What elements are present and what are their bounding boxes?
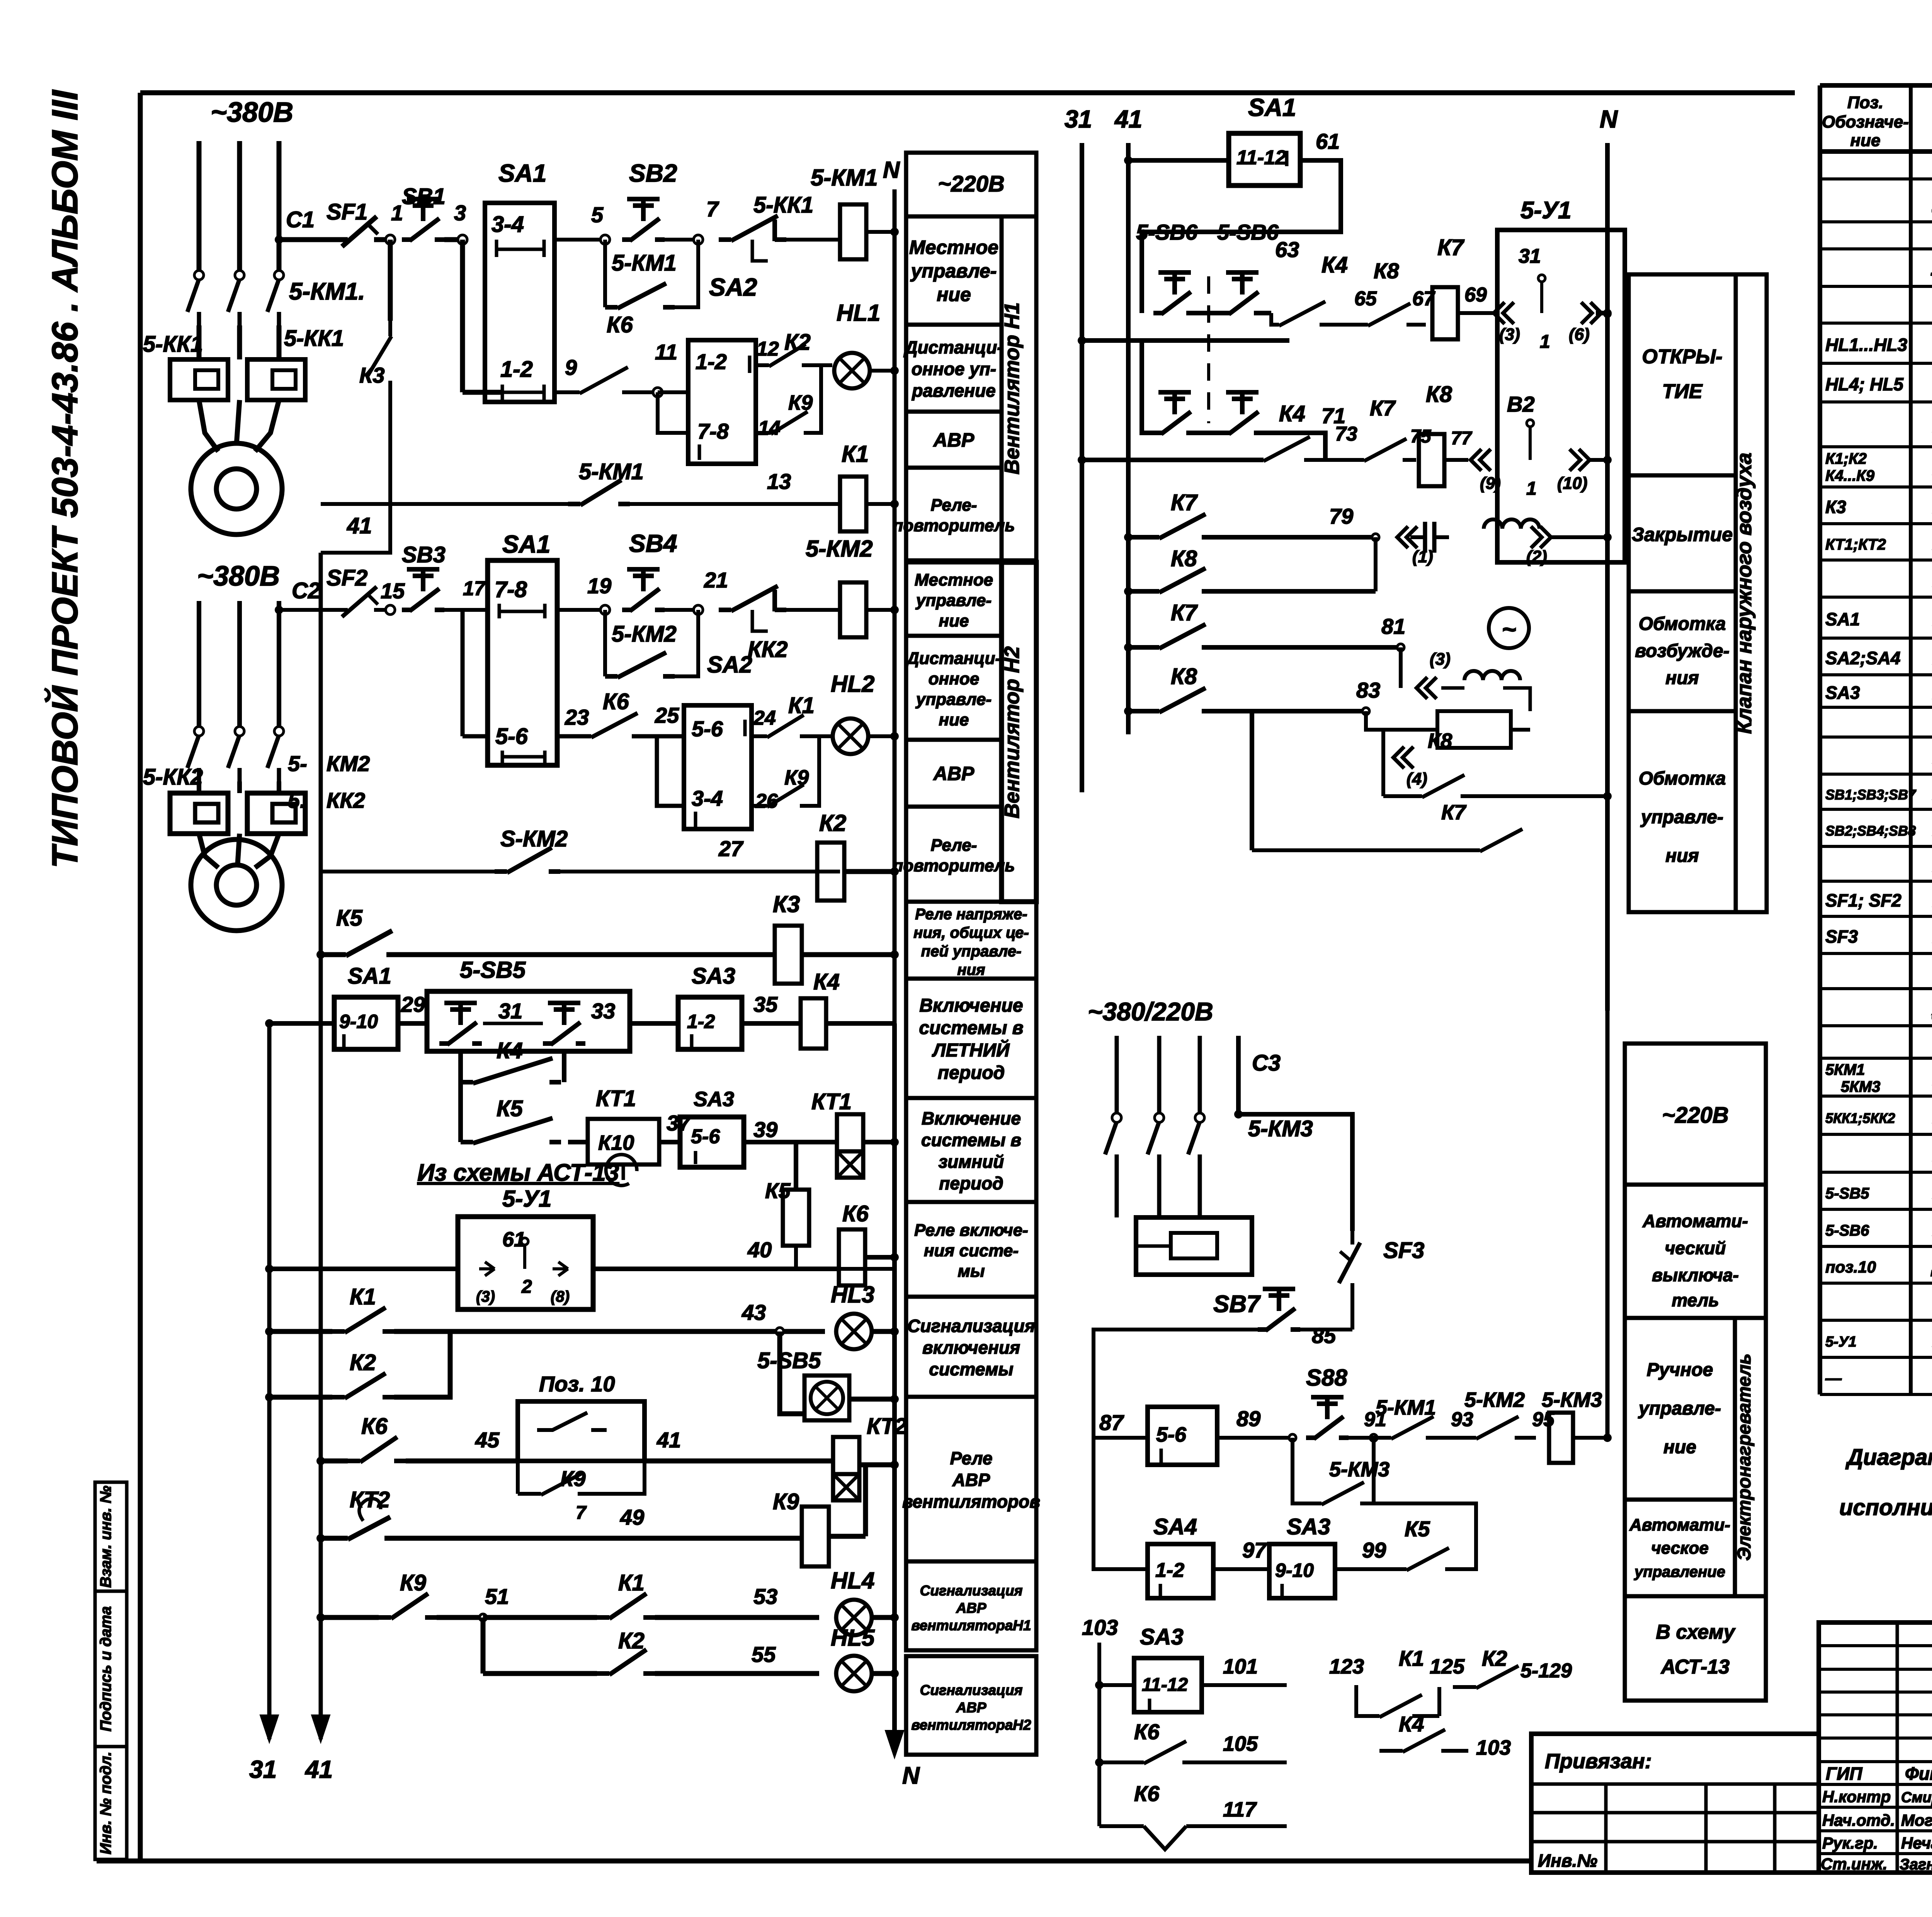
row К2 contact	[265, 1393, 274, 1401]
svg-text:Н.контр: Н.контр	[1822, 1788, 1891, 1806]
svg-text:управле-: управле-	[1640, 807, 1723, 827]
svg-text:КТ1;КТ2: КТ1;КТ2	[1825, 536, 1886, 553]
svg-text:HL2: HL2	[831, 671, 874, 697]
wire У1 open to N	[1603, 310, 1612, 318]
svg-text:~220В: ~220В	[1662, 1103, 1729, 1128]
svg-text:117: 117	[1223, 1798, 1257, 1821]
left margin stamp box Взам. инв. №	[95, 1482, 127, 1591]
svg-text:SF3: SF3	[1825, 926, 1858, 947]
relay box in control branch	[1437, 711, 1511, 748]
svg-text:5-129: 5-129	[1520, 1660, 1572, 1682]
function box Местное управление fan2	[906, 562, 1002, 636]
svg-text:К8: К8	[1428, 729, 1452, 752]
svg-text:35: 35	[753, 992, 778, 1016]
svg-text:К10: К10	[598, 1131, 634, 1154]
row 45 contact К6	[316, 1457, 325, 1465]
heater function box Ручное управление	[1625, 1318, 1735, 1500]
svg-text:К1;К2: К1;К2	[1825, 450, 1867, 467]
svg-text:К6: К6	[361, 1414, 388, 1439]
svg-text:онное уп-: онное уп-	[912, 359, 996, 379]
svg-text:SA2: SA2	[707, 652, 752, 678]
svg-text:Реле напряже-: Реле напряже-	[915, 906, 1027, 923]
svg-text:SF2: SF2	[327, 565, 367, 591]
motor M1	[191, 443, 282, 535]
привязан block	[1531, 1734, 1819, 1873]
svg-text:1-2: 1-2	[500, 357, 533, 382]
svg-text:К7: К7	[1171, 600, 1198, 625]
N bus vertical section1	[893, 189, 897, 560]
svg-text:Диаграммы замыканий контакто: Диаграммы замыканий контактов универсаль…	[1845, 1445, 1932, 1470]
wire C2 row feeder 2 control	[279, 608, 333, 612]
svg-text:9: 9	[565, 355, 577, 380]
row летний период: cam SA1 9-10	[265, 1019, 274, 1028]
rotated label Вентилятор Н2	[1002, 562, 1036, 902]
svg-text:Инв. № подл.: Инв. № подл.	[97, 1752, 114, 1854]
svg-text:99: 99	[1362, 1538, 1386, 1562]
svg-text:К8: К8	[1374, 259, 1399, 283]
svg-text:77: 77	[1451, 428, 1473, 449]
svg-text:К1: К1	[350, 1284, 376, 1309]
svg-text:ние: ние	[937, 284, 971, 305]
cam switch SA3 1-2	[630, 1021, 678, 1026]
svg-text:3: 3	[454, 201, 466, 225]
bus 41 vertical	[319, 553, 323, 1739]
svg-text:~380В: ~380В	[197, 561, 280, 592]
svg-text:HL5: HL5	[831, 1625, 875, 1651]
svg-text:К4: К4	[1321, 252, 1348, 278]
svg-text:7: 7	[706, 197, 719, 221]
svg-text:5-: 5-	[288, 751, 307, 776]
svg-text:Поз.: Поз.	[1847, 93, 1883, 112]
svg-text:мы: мы	[957, 1262, 985, 1281]
svg-text:5-SB5: 5-SB5	[460, 957, 526, 983]
heater phase lines	[1115, 1036, 1119, 1117]
function box Местное управление fan1	[906, 216, 1002, 325]
svg-text:Привязан:: Привязан:	[1545, 1750, 1652, 1773]
function box Реле-повторитель fan2	[906, 807, 1002, 902]
svg-text:Электронагреватель: Электронагреватель	[1734, 1353, 1755, 1561]
row 97 automatic mode	[1094, 1438, 1148, 1569]
row 55 contact К2	[481, 1617, 486, 1674]
svg-text:87: 87	[1099, 1410, 1124, 1435]
row К8 83	[1124, 707, 1133, 715]
svg-text:5-SB6: 5-SB6	[1136, 220, 1198, 244]
svg-text:исполнительного механизма, п: исполнительного механизма, прибора поз. …	[1839, 1495, 1932, 1520]
svg-text:Вентилятор Н1: Вентилятор Н1	[1000, 302, 1024, 474]
motor M2	[191, 839, 282, 931]
svg-text:К9: К9	[784, 766, 809, 789]
svg-text:55: 55	[752, 1642, 776, 1667]
svg-text:5-КМ1: 5-КМ1	[612, 250, 677, 276]
svg-text:К4...К9: К4...К9	[1825, 467, 1875, 484]
svg-text:Реле включе-: Реле включе-	[914, 1221, 1028, 1240]
svg-text:103: 103	[1476, 1736, 1511, 1759]
svg-text:К7: К7	[1441, 801, 1467, 824]
svg-text:41: 41	[656, 1428, 681, 1452]
svg-text:период: период	[938, 1063, 1005, 1083]
function box Реле напряжения	[906, 902, 1036, 979]
function box Дистанционное управление fan2	[906, 636, 1002, 740]
svg-text:КК2: КК2	[748, 637, 788, 662]
svg-text:Вентилятор Н2: Вентилятор Н2	[1000, 646, 1024, 818]
wire node11 into SA2	[658, 390, 688, 394]
heater element box	[1136, 1217, 1252, 1275]
svg-text:К7: К7	[1437, 235, 1465, 260]
svg-text:~: ~	[1502, 615, 1516, 643]
wire to node 3	[444, 237, 463, 242]
svg-text:1: 1	[1526, 478, 1537, 499]
svg-text:ния систе-: ния систе-	[924, 1241, 1019, 1260]
svg-text:повторитель: повторитель	[893, 856, 1015, 875]
svg-text:К6: К6	[1134, 1720, 1160, 1744]
thermal relay 5-КК2 element B	[247, 793, 305, 834]
svg-text:N: N	[902, 1762, 920, 1789]
svg-text:5-КК2: 5-КК2	[143, 764, 203, 790]
wire phase lines feeder 1	[197, 141, 202, 274]
svg-text:5-КМ2: 5-КМ2	[1464, 1388, 1525, 1411]
wire left bus heater	[1094, 1330, 1258, 1438]
svg-text:Включение: Включение	[922, 1108, 1021, 1129]
svg-text:SA2;SA4: SA2;SA4	[1825, 648, 1900, 668]
control winding branch	[1399, 647, 1403, 688]
svg-text:К5: К5	[1405, 1517, 1430, 1541]
svg-text:тель: тель	[1672, 1290, 1719, 1310]
svg-text:Дистанци-: Дистанци-	[903, 337, 1003, 358]
svg-text:N: N	[1600, 105, 1618, 133]
svg-text:КТ1: КТ1	[596, 1086, 636, 1111]
wire thermal relays to motor M1	[199, 400, 218, 451]
wire down to 41 junction	[321, 410, 390, 553]
svg-text:К2: К2	[1482, 1646, 1507, 1670]
svg-text:ние: ние	[1663, 1437, 1696, 1457]
svg-text:HL1: HL1	[837, 300, 880, 326]
svg-text:5-У1: 5-У1	[502, 1186, 551, 1212]
svg-text:12: 12	[757, 338, 779, 360]
svg-text:период: период	[939, 1173, 1003, 1193]
function box Включение зимний период	[906, 1098, 1036, 1202]
svg-text:С3: С3	[1252, 1050, 1281, 1076]
svg-text:31: 31	[498, 999, 522, 1023]
svg-text:Сигнализация: Сигнализация	[907, 1316, 1035, 1336]
svg-text:40: 40	[747, 1238, 772, 1262]
svg-text:27: 27	[718, 836, 744, 861]
wire N line heater	[1236, 1036, 1241, 1114]
wire node17 to SA1 5-6 row	[461, 610, 465, 736]
AC source symbol	[1489, 608, 1529, 648]
excitation winding branch	[1410, 535, 1425, 539]
wire to node 17	[444, 608, 488, 612]
svg-text:К6: К6	[603, 689, 629, 714]
svg-text:1: 1	[391, 201, 403, 225]
svg-text:ния, общих це-: ния, общих це-	[913, 924, 1029, 941]
svg-text:29: 29	[401, 992, 425, 1016]
wire coil2 to N bus	[866, 608, 895, 612]
self-hold branch 5-КМ2	[603, 610, 607, 676]
svg-text:АСТ-13: АСТ-13	[1660, 1656, 1730, 1678]
svg-text:К1: К1	[618, 1570, 645, 1595]
wire row 40	[269, 1267, 458, 1271]
svg-text:31: 31	[1519, 245, 1541, 267]
sheet frame left border	[138, 93, 143, 1861]
svg-text:5-6: 5-6	[691, 1125, 720, 1148]
svg-text:5-КМ2: 5-КМ2	[612, 621, 677, 647]
svg-text:5КК1;5КК2: 5КК1;5КК2	[1825, 1110, 1895, 1126]
svg-text:1-2: 1-2	[696, 349, 727, 374]
svg-text:89: 89	[1236, 1406, 1260, 1431]
svg-text:93: 93	[1451, 1408, 1473, 1431]
row 49 timed contact КТ2	[316, 1534, 325, 1542]
N bus vertical section2	[893, 560, 897, 1023]
row К7 bottom	[1250, 711, 1254, 850]
svg-text:ЛЕТНИЙ: ЛЕТНИЙ	[932, 1040, 1010, 1061]
svg-text:73: 73	[1335, 423, 1357, 445]
rotated label Клапан наружного воздуха	[1736, 274, 1767, 912]
svg-text:SA3: SA3	[694, 1088, 734, 1111]
svg-text:ческий: ческий	[1665, 1238, 1726, 1258]
sheet frame bottom border	[97, 1859, 1532, 1864]
svg-text:Реле-: Реле-	[931, 496, 977, 515]
function box АВР fan2	[906, 740, 1002, 807]
wire SA1 to node 5	[554, 238, 605, 242]
svg-text:Местное: Местное	[909, 237, 998, 258]
heater function box В схему АСТ-13	[1625, 1596, 1766, 1701]
svg-text:5-КМ3: 5-КМ3	[1248, 1116, 1313, 1141]
svg-text:(3): (3)	[1430, 650, 1451, 669]
svg-text:43: 43	[742, 1300, 766, 1325]
thermal relay 5-КК1 element A	[170, 359, 228, 400]
svg-text:SA1: SA1	[1248, 94, 1296, 121]
svg-text:Сигнализация: Сигнализация	[920, 1682, 1023, 1698]
function box ~220В fan1	[906, 153, 1036, 216]
svg-text:5-КМ1: 5-КМ1	[579, 459, 644, 484]
row К8 feed	[1124, 587, 1133, 596]
function box Сигнализация АВР вентилятора Н2	[906, 1656, 1036, 1755]
svg-text:Клапан наружного воздуха: Клапан наружного воздуха	[1733, 453, 1756, 734]
title block signature grid	[1819, 1622, 1932, 1873]
svg-text:Инв.№: Инв.№	[1538, 1851, 1597, 1871]
svg-text:Загнибеда: Загнибеда	[1900, 1856, 1932, 1873]
svg-text:ОТКРЫ-: ОТКРЫ-	[1642, 346, 1722, 368]
heater function box Автоматическое управление	[1625, 1500, 1735, 1596]
svg-text:3-4: 3-4	[492, 212, 524, 237]
svg-text:5-SB5: 5-SB5	[1825, 1185, 1869, 1202]
svg-text:HL4; HL5: HL4; HL5	[1825, 374, 1904, 394]
svg-text:SA3: SA3	[1287, 1514, 1330, 1539]
svg-text:К3: К3	[1825, 497, 1846, 517]
row 43 contact К1	[265, 1327, 274, 1336]
svg-text:53: 53	[753, 1584, 777, 1609]
svg-text:SA1: SA1	[1825, 609, 1860, 629]
svg-text:К1: К1	[1399, 1646, 1424, 1670]
svg-text:ТИПОВОЙ ПРОЕКТ 503-4-43.86 .: ТИПОВОЙ ПРОЕКТ 503-4-43.86 . АЛЬБОМ III	[44, 89, 85, 868]
cam switch SA3 5-6	[659, 1140, 680, 1144]
svg-text:системы в: системы в	[919, 1018, 1023, 1039]
svg-text:5-6: 5-6	[495, 724, 528, 749]
svg-text:5-КМ1.: 5-КМ1.	[289, 278, 365, 305]
svg-text:К2: К2	[618, 1628, 645, 1653]
svg-text:Нач.отд.: Нач.отд.	[1822, 1811, 1895, 1829]
svg-text:81: 81	[1381, 614, 1405, 638]
svg-text:Рук.гр.: Рук.гр.	[1822, 1834, 1878, 1852]
svg-text:Финкер: Финкер	[1905, 1764, 1932, 1784]
svg-text:123: 123	[1329, 1655, 1364, 1678]
svg-text:85: 85	[1312, 1323, 1336, 1348]
svg-text:7-8: 7-8	[495, 577, 527, 602]
svg-text:N: N	[883, 157, 900, 183]
function box Реле АВР вентиляторов	[906, 1397, 1036, 1561]
svg-text:101: 101	[1223, 1655, 1258, 1678]
svg-text:Реле: Реле	[950, 1448, 993, 1468]
wire SA1-2 to node 19	[557, 608, 605, 612]
svg-text:К9: К9	[788, 391, 813, 414]
svg-text:Подпись и дата: Подпись и дата	[97, 1606, 114, 1731]
svg-text:КТ2: КТ2	[867, 1414, 907, 1439]
svg-text:ния: ния	[957, 962, 985, 979]
svg-text:С2: С2	[292, 578, 320, 603]
row К7 81	[1124, 643, 1133, 652]
svg-text:63: 63	[1275, 237, 1299, 262]
svg-text:79: 79	[1329, 504, 1353, 528]
svg-text:SA3: SA3	[692, 964, 735, 989]
wire C3 to SF3	[1238, 1114, 1352, 1231]
svg-text:Обмотка: Обмотка	[1639, 768, 1726, 789]
svg-text:45: 45	[475, 1428, 500, 1452]
svg-text:SA1: SA1	[498, 159, 547, 187]
svg-text:Включение: Включение	[919, 996, 1023, 1016]
svg-text:31: 31	[249, 1755, 277, 1783]
svg-text:пей управле-: пей управле-	[921, 943, 1022, 960]
svg-text:(8): (8)	[551, 1288, 570, 1305]
svg-text:Сигнализация: Сигнализация	[920, 1583, 1023, 1599]
svg-text:управле-: управле-	[915, 591, 992, 610]
svg-text:Ст.инж.: Ст.инж.	[1821, 1855, 1887, 1873]
svg-text:К5: К5	[336, 906, 363, 931]
svg-text:SF1: SF1	[327, 199, 367, 225]
svg-text:(1): (1)	[1412, 547, 1433, 566]
svg-text:2: 2	[521, 1277, 532, 1297]
svg-text:(6): (6)	[1569, 325, 1590, 344]
svg-text:31: 31	[1065, 105, 1092, 133]
датчик поз.10 box	[518, 1401, 645, 1461]
svg-text:управле-: управле-	[910, 260, 997, 282]
svg-text:К2: К2	[350, 1350, 376, 1375]
parts table grid	[1820, 83, 1932, 88]
wire phases to heater	[1115, 1168, 1119, 1217]
button pair 5-SB6 second row 71	[1082, 338, 1289, 343]
svg-text:5-КМ1: 5-КМ1	[1376, 1396, 1436, 1419]
svg-text:1-2: 1-2	[1155, 1559, 1184, 1582]
svg-text:К6: К6	[842, 1201, 869, 1226]
svg-text:К7: К7	[1171, 490, 1198, 515]
svg-text:АВР: АВР	[956, 1600, 986, 1616]
svg-text:13: 13	[767, 469, 791, 494]
svg-text:33: 33	[591, 999, 615, 1023]
svg-text:ние: ние	[939, 611, 969, 630]
svg-text:К6: К6	[1134, 1781, 1160, 1806]
svg-text:SA4: SA4	[1153, 1514, 1197, 1539]
N bus vertical section3	[892, 1023, 897, 1747]
svg-text:5-6: 5-6	[1156, 1423, 1187, 1446]
svg-text:Смирновская: Смирновская	[1901, 1789, 1932, 1806]
svg-text:39: 39	[753, 1117, 777, 1142]
svg-text:зимний: зимний	[939, 1152, 1004, 1172]
svg-text:5-У1: 5-У1	[1825, 1334, 1857, 1350]
svg-text:возбужде-: возбужде-	[1635, 641, 1729, 661]
svg-text:К8: К8	[1171, 546, 1197, 571]
svg-text:41: 41	[347, 513, 372, 538]
svg-text:АВР: АВР	[952, 1470, 990, 1490]
svg-text:К5: К5	[497, 1096, 523, 1121]
svg-text:ния: ния	[1665, 846, 1699, 866]
wire node3 to SA1 1-2 row	[460, 240, 465, 392]
svg-text:С1: С1	[286, 207, 315, 232]
svg-text:(2): (2)	[1526, 547, 1547, 566]
svg-text:К4: К4	[1399, 1712, 1424, 1736]
svg-text:9-10: 9-10	[339, 1011, 378, 1032]
svg-text:25: 25	[655, 703, 679, 727]
svg-text:~380В: ~380В	[211, 97, 293, 128]
svg-text:КМ2: КМ2	[327, 751, 370, 776]
valve function box Обмотка управления	[1629, 711, 1736, 912]
svg-text:К4: К4	[813, 969, 840, 994]
wire 41 to SA1 and loop	[1124, 156, 1133, 165]
N bus heater segment	[1605, 1011, 1610, 1438]
svg-text:11: 11	[655, 340, 677, 364]
function box Реле-повторитель fan1	[906, 468, 1002, 560]
wire coil to N bus	[866, 230, 895, 234]
svg-text:5КМ1: 5КМ1	[1825, 1061, 1865, 1078]
svg-text:(3): (3)	[476, 1288, 495, 1305]
svg-text:5-КК1: 5-КК1	[284, 326, 344, 351]
svg-text:Дистанци-: Дистанци-	[905, 649, 1001, 668]
svg-text:системы: системы	[929, 1359, 1013, 1379]
valve function box Закрытие	[1629, 475, 1736, 591]
svg-text:97: 97	[1242, 1538, 1267, 1562]
wire phase lines feeder 2	[197, 601, 201, 730]
svg-text:SA2: SA2	[709, 273, 757, 301]
wire phases to thermal relays	[197, 325, 202, 359]
svg-text:41: 41	[304, 1755, 333, 1783]
svg-text:В2: В2	[1507, 392, 1535, 416]
svg-text:7-8: 7-8	[697, 419, 729, 443]
svg-text:SB1;SB3;SB7: SB1;SB3;SB7	[1825, 787, 1917, 803]
wire SA2-2 bottom loop	[657, 736, 684, 806]
svg-text:105: 105	[1223, 1732, 1258, 1755]
svg-text:онное: онное	[929, 669, 979, 688]
svg-text:125: 125	[1430, 1655, 1465, 1678]
svg-text:равление: равление	[911, 381, 996, 401]
function box Сигнализация включения системы	[906, 1297, 1036, 1397]
svg-text:61: 61	[1316, 129, 1340, 153]
function box Сигнализация АВР вентилятора Н1	[906, 1561, 1036, 1650]
svg-text:15: 15	[381, 579, 405, 603]
branch contact К5	[458, 1082, 463, 1142]
svg-text:83: 83	[1356, 678, 1380, 702]
svg-text:5: 5	[591, 203, 604, 227]
svg-text:Автомати-: Автомати-	[1629, 1515, 1730, 1534]
wire to node 21	[665, 608, 698, 612]
svg-text:SA1: SA1	[502, 530, 551, 558]
svg-text:ческое: ческое	[1651, 1539, 1709, 1558]
svg-text:Закрытие: Закрытие	[1632, 524, 1733, 545]
svg-text:51: 51	[485, 1584, 509, 1609]
svg-text:41: 41	[1114, 105, 1142, 133]
svg-text:7: 7	[576, 1503, 587, 1523]
svg-text:В схему: В схему	[1656, 1621, 1736, 1643]
svg-text:(4): (4)	[1406, 770, 1427, 788]
svg-text:23: 23	[565, 705, 589, 729]
svg-text:103: 103	[1082, 1615, 1118, 1639]
